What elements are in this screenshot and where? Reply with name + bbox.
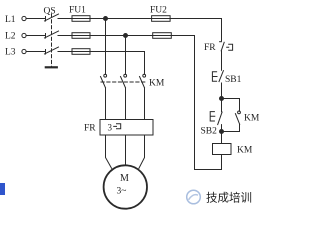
thermal relay FR contact (control) xyxy=(220,42,233,51)
svg-text:3~: 3~ xyxy=(117,187,127,197)
wire row1 FU1 to FU2 xyxy=(90,18,152,20)
watermark logo xyxy=(187,190,201,204)
pushbutton SB2 (start, NO) xyxy=(210,112,222,125)
contactor KM main contact 2 xyxy=(121,74,127,88)
wire phase 1 to FR box xyxy=(105,88,107,120)
wire SB2 to lower junction xyxy=(221,125,223,132)
fuse FU1 pole 1 xyxy=(72,16,90,22)
wire FU2 to control top corner xyxy=(170,19,221,41)
contactor KM linkage dashed xyxy=(101,81,147,83)
svg-text:FR: FR xyxy=(84,124,96,134)
node L3 terminal xyxy=(22,49,26,53)
wire QS to FU1 row2 xyxy=(58,35,72,37)
fuse FU2 pole 1 xyxy=(152,16,171,22)
contactor KM auxiliary contact (self-hold) xyxy=(235,111,240,124)
wire junction to KM coil xyxy=(221,132,223,144)
switch QS linkage dashed xyxy=(51,14,53,67)
svg-text:SB2: SB2 xyxy=(201,127,218,137)
svg-text:L3: L3 xyxy=(5,48,16,58)
wire motor phase 1 drop xyxy=(105,19,107,75)
svg-text:FU2: FU2 xyxy=(150,6,167,16)
wire FR box to motor lead 2 xyxy=(125,135,127,165)
wire FR box to motor lead 3 xyxy=(139,135,145,168)
fuse FU2 pole 2 xyxy=(153,33,172,39)
thermal relay FR heater box xyxy=(100,120,153,136)
svg-text:3: 3 xyxy=(108,123,113,133)
junction before KM coil xyxy=(220,130,224,134)
node L1 terminal xyxy=(22,16,26,20)
svg-text:QS: QS xyxy=(44,7,56,17)
wire FR contact to SB1 xyxy=(221,51,223,70)
wire branch to KM aux contact xyxy=(222,99,240,112)
wire L2 to QS xyxy=(26,35,45,37)
svg-text:FU1: FU1 xyxy=(69,6,86,16)
blue marker left edge xyxy=(0,183,5,195)
svg-text:KM: KM xyxy=(244,114,259,124)
wire FU2 pole2 to return line xyxy=(171,36,221,170)
wire phase 3 to FR box xyxy=(144,88,146,120)
wire QS to FU1 row1 xyxy=(58,18,72,20)
fuse FU1 pole 2 xyxy=(72,33,90,39)
wire row3 FU1 to bend xyxy=(90,51,145,53)
wire motor phase 3 drop xyxy=(144,52,146,75)
junction row2 motor branch xyxy=(124,34,128,38)
contactor KM main contact 1 xyxy=(101,74,107,88)
switch QS handle bar xyxy=(46,66,57,68)
wire FR box to motor lead 1 xyxy=(106,135,112,168)
junction row1 motor branch xyxy=(104,17,108,21)
wire phase 2 to FR box xyxy=(125,88,127,120)
fuse FU1 pole 3 xyxy=(72,49,90,55)
motor M circle xyxy=(104,165,147,208)
svg-text:SB1: SB1 xyxy=(225,75,242,85)
wire L1 to QS xyxy=(26,18,45,20)
switch QS pole 1 xyxy=(45,14,59,21)
wire SB1 junction to SB2 xyxy=(221,99,223,112)
svg-text:KM: KM xyxy=(237,146,253,156)
wire KM coil to bottom xyxy=(221,155,223,170)
wire L3 to QS xyxy=(26,51,45,53)
wire SB1 to junction xyxy=(221,83,223,99)
thermal relay FR heater symbol xyxy=(114,124,121,129)
pushbutton SB1 (stop, NC) xyxy=(212,71,223,82)
svg-text:KM: KM xyxy=(149,79,165,89)
wire motor phase 2 drop xyxy=(125,36,127,75)
wire KM aux to lower junction xyxy=(222,124,240,131)
svg-text:M: M xyxy=(120,173,129,184)
wire row2 FU1 to FU2 xyxy=(90,35,153,37)
switch QS pole 3 xyxy=(45,47,59,54)
svg-text:技成培训: 技成培训 xyxy=(206,191,252,205)
junction after SB1 xyxy=(220,97,224,101)
svg-text:L1: L1 xyxy=(5,15,16,25)
contactor coil KM xyxy=(213,144,232,155)
contactor KM main contact 3 xyxy=(140,74,146,88)
svg-text:FR: FR xyxy=(204,43,216,53)
wire QS to FU1 row3 xyxy=(58,51,72,53)
svg-text:L2: L2 xyxy=(5,32,16,42)
switch QS pole 2 xyxy=(45,31,59,38)
node L2 terminal xyxy=(22,33,26,37)
